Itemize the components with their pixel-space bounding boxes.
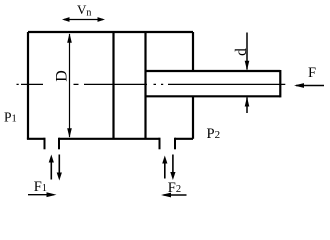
svg-text:F: F [308, 65, 316, 81]
right port flow arrow down [170, 155, 175, 181]
rod top edge [146, 70, 281, 72]
svg-text:D: D [54, 70, 71, 82]
rod bottom edge [146, 95, 281, 97]
dimension line D (vertical with arrows both ends) [67, 33, 72, 138]
left port flow arrow up [49, 155, 54, 180]
left port stub left [44, 138, 46, 150]
svg-text:P2: P2 [207, 126, 221, 142]
cylinder right wall lower (below rod) [192, 96, 194, 139]
centerline (dash-dot axis) [17, 83, 286, 85]
left port stub right [58, 138, 60, 150]
left port flow arrow down [57, 155, 62, 181]
cylinder left wall [27, 32, 29, 139]
cylinder top wall [28, 31, 193, 33]
cylinder right wall upper (above rod) [192, 32, 194, 71]
right port stub left [159, 138, 161, 150]
piston right edge [144, 32, 146, 139]
force F1 arrow (underline, pointing right) [28, 192, 57, 197]
rod end cap [279, 70, 281, 97]
right port stub right [174, 138, 176, 150]
Vn double-headed arrow [62, 17, 105, 22]
svg-text:d: d [233, 48, 250, 56]
force F arrow (pointing left at rod end) [294, 83, 324, 88]
force F2 arrow (underline, pointing left) [161, 193, 187, 198]
dimension line d upper part (arrow down to rod top) [245, 33, 250, 71]
cylinder bottom wall (with port gaps) [27, 138, 193, 140]
dimension line d lower part (arrow up to rod bottom) [245, 97, 250, 113]
right port flow arrow up [162, 156, 167, 179]
piston left edge [112, 32, 114, 139]
